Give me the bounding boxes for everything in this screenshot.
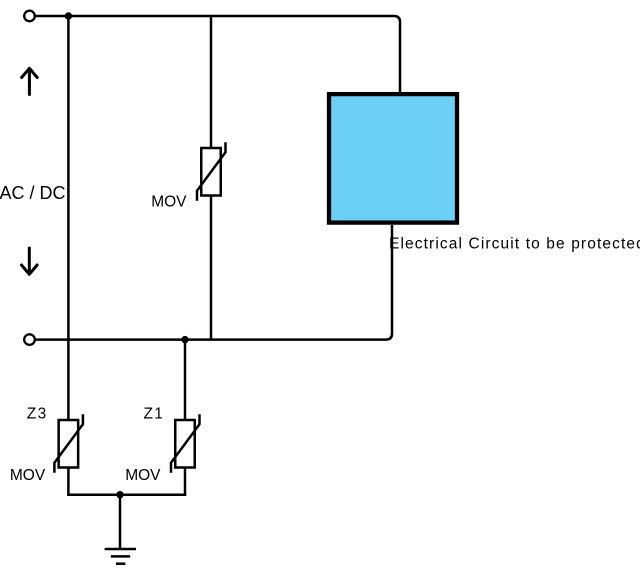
svg-text:MOV: MOV (151, 193, 187, 210)
svg-text:Electrical Circuit to be prote: Electrical Circuit to be protected (389, 235, 640, 252)
svg-text:Z1: Z1 (144, 405, 165, 422)
svg-text:MOV: MOV (10, 467, 46, 484)
svg-text:AC / DC: AC / DC (0, 183, 66, 203)
svg-text:Z3: Z3 (27, 405, 48, 422)
svg-text:MOV: MOV (125, 467, 161, 484)
